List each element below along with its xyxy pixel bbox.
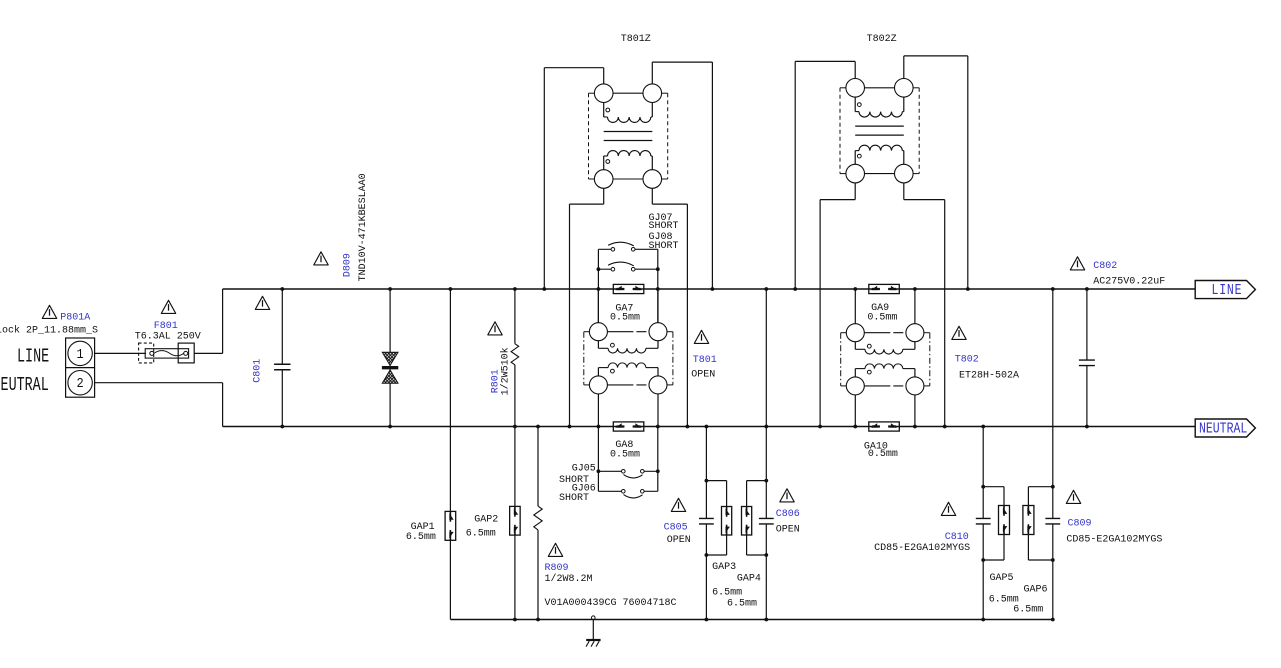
varistor D809 (382, 289, 398, 427)
spark gap GAP5 (983, 486, 1004, 488)
wire earth rail (450, 619, 1052, 621)
svg-text:SHORT: SHORT (649, 241, 679, 252)
svg-text:0.5mm: 0.5mm (610, 450, 640, 461)
warning triangle T801 (694, 330, 708, 343)
warning triangle R809 (548, 543, 562, 556)
jumper GJ05 (598, 470, 621, 472)
svg-text:NEUTRAL: NEUTRAL (1199, 420, 1247, 437)
svg-text:GAP6: GAP6 (1024, 585, 1048, 596)
svg-text:C801: C801 (253, 359, 264, 383)
wire T802 risers (854, 289, 856, 324)
wire pin2 to NEUTRAL bus (95, 382, 223, 384)
svg-text:OPEN: OPEN (776, 524, 800, 535)
spark gap GA8 (613, 422, 644, 431)
spark gap GAP3 (706, 480, 726, 482)
svg-text:NEUTRAL: NEUTRAL (0, 374, 49, 396)
wire T802Z top-right to LINE bus (903, 56, 905, 79)
spark gap GA7 (613, 284, 644, 293)
jumper GJ08 (598, 268, 611, 270)
spark gap GA10 (869, 422, 900, 431)
node NEUTRAL (1195, 419, 1255, 437)
svg-text:GAP2: GAP2 (474, 515, 498, 526)
capacitor C805 (705, 427, 707, 519)
warning triangle C801 (255, 296, 269, 309)
svg-text:0.5mm: 0.5mm (868, 449, 898, 460)
warning triangle F801 (161, 300, 175, 313)
svg-text:6.5mm: 6.5mm (712, 587, 742, 598)
spark gap GA9 (869, 284, 900, 293)
svg-text:GAP4: GAP4 (737, 574, 761, 585)
svg-text:F801: F801 (154, 321, 178, 332)
warning triangle D809 (314, 252, 328, 265)
svg-text:C810: C810 (945, 532, 969, 543)
svg-text:OPEN: OPEN (691, 370, 715, 381)
warning triangle T802 (952, 326, 966, 339)
capacitor C810 (982, 427, 984, 519)
svg-text:SHORT: SHORT (649, 221, 679, 232)
svg-text:GAP3: GAP3 (712, 562, 736, 573)
svg-text:T801: T801 (693, 355, 717, 366)
svg-text:C802: C802 (1093, 261, 1117, 272)
svg-text:C805: C805 (664, 522, 688, 533)
resistor R809 (534, 427, 542, 620)
connector P801A (66, 338, 95, 397)
wire GJ07/GJ08 risers (597, 249, 599, 322)
svg-text:CD85-E2GA102MYGS: CD85-E2GA102MYGS (874, 543, 970, 554)
transformer T801 (584, 323, 673, 394)
warning triangle C806 (780, 489, 794, 502)
resistor R801 (511, 289, 519, 427)
spark gap GAP1 (445, 511, 456, 540)
svg-text:GJ05: GJ05 (572, 464, 596, 475)
transformer T801Z (589, 84, 668, 188)
svg-text:6.5mm: 6.5mm (466, 528, 496, 539)
wire T801Z bottom-right to NEUTRAL bus (651, 188, 653, 204)
svg-text:1/2W8.2M: 1/2W8.2M (545, 573, 593, 585)
wire LINE bus (223, 288, 1196, 290)
svg-text:6.5mm: 6.5mm (1013, 605, 1043, 616)
svg-text:OPEN: OPEN (667, 535, 691, 546)
capacitor C801 (281, 289, 283, 364)
svg-text:T802Z: T802Z (867, 34, 897, 45)
svg-text:LINE: LINE (1212, 282, 1243, 299)
svg-text:ET28H-502A: ET28H-502A (959, 370, 1019, 381)
wire NEUTRAL bus (223, 426, 1196, 428)
transformer T802Z (840, 78, 919, 182)
wire GAP1 branch (449, 289, 451, 511)
svg-text:0.5mm: 0.5mm (867, 312, 897, 323)
capacitor C806 (765, 289, 767, 427)
svg-text:P801A: P801A (60, 313, 90, 324)
spark gap GAP6 (1028, 486, 1052, 488)
svg-text:SHORT: SHORT (559, 493, 589, 504)
wire T801Z bottom-left to NEUTRAL bus (603, 188, 605, 204)
warning triangle C809 (1066, 490, 1080, 503)
svg-text:1/2W510k: 1/2W510k (500, 347, 512, 395)
wire T802Z bottom-left to NEUTRAL bus (854, 183, 856, 200)
svg-text:TND10V-471KBESLAA0: TND10V-471KBESLAA0 (358, 173, 369, 281)
spark gap GAP2 (510, 506, 521, 535)
wire GAP2 branch (514, 427, 516, 507)
svg-text:6.5mm: 6.5mm (727, 598, 757, 609)
jumper GJ06 (598, 490, 621, 492)
svg-text:R809: R809 (545, 563, 569, 574)
wire T802Z bottom-right to NEUTRAL bus (903, 183, 905, 200)
svg-text:T801Z: T801Z (621, 34, 651, 45)
warning triangle R801 (488, 322, 502, 335)
wire T801 risers (597, 289, 599, 323)
svg-text:C809: C809 (1068, 519, 1092, 530)
svg-text:GAP5: GAP5 (990, 573, 1014, 584)
warning triangle C810 (941, 502, 955, 515)
capacitor C809 (1052, 289, 1054, 427)
svg-text:D809: D809 (343, 253, 354, 277)
transformer T802 (841, 324, 930, 395)
wire fuse to LINE bus (194, 352, 222, 354)
wire GJ05/GJ06 risers (597, 427, 599, 492)
svg-text:T6.3AL 250V: T6.3AL 250V (135, 331, 201, 342)
jumper GJ07 (598, 248, 611, 250)
svg-text:C806: C806 (776, 509, 800, 520)
spark gap GAP4 (747, 480, 767, 482)
wire pin1 to fuse (95, 352, 146, 354)
wire T802Z top-left to LINE bus (854, 61, 856, 78)
wire T801Z top-right to LINE bus (651, 62, 653, 84)
svg-text:Lock 2P_11.88mm_S: Lock 2P_11.88mm_S (0, 325, 98, 337)
svg-text:1: 1 (76, 346, 83, 362)
warning triangle C802 (1070, 257, 1084, 270)
node LINE (1195, 281, 1255, 299)
warning triangle P801A (42, 305, 56, 318)
wire T801Z top-left to LINE bus (603, 68, 605, 84)
warning triangle C805 (671, 498, 685, 511)
capacitor C802 (1086, 289, 1088, 360)
fuse F801 (139, 343, 195, 363)
svg-text:AC275V0.22uF: AC275V0.22uF (1093, 276, 1165, 287)
svg-text:6.5mm: 6.5mm (406, 532, 436, 543)
svg-text:2: 2 (76, 375, 83, 391)
svg-text:0.5mm: 0.5mm (610, 313, 640, 324)
svg-text:LINE: LINE (17, 345, 49, 367)
svg-text:V01A000439CG 76004718C: V01A000439CG 76004718C (545, 598, 677, 609)
ground (586, 616, 601, 647)
svg-text:CD85-E2GA102MYGS: CD85-E2GA102MYGS (1066, 535, 1162, 546)
svg-text:T802: T802 (955, 355, 979, 366)
